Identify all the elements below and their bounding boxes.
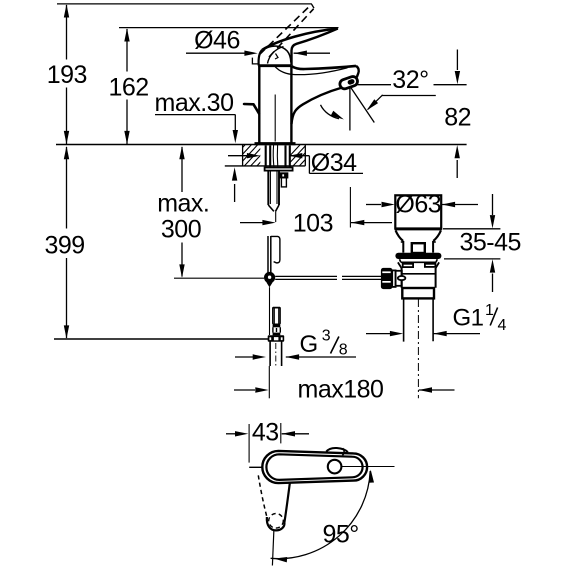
right stud body [281, 178, 286, 187]
Ø34 right leader [289, 156, 363, 174]
counter surface line [56, 144, 467, 146]
32° leader left segment [358, 84, 392, 86]
max.30 lower arrow stem [234, 184, 236, 202]
arrow 399 bottom [64, 325, 69, 338]
outer capsule [262, 451, 367, 483]
body right wall [290, 66, 292, 143]
flange under collar [400, 259, 438, 262]
drain taper left [396, 231, 404, 242]
spout underside [292, 88, 342, 124]
lever underside + dome right edge [292, 29, 338, 66]
dashed lever tip link [312, 4, 314, 8]
dimension max300 line [181, 147, 183, 277]
drain body sides [402, 268, 436, 288]
svg-text:162: 162 [108, 74, 148, 102]
arrow max.30 up to slab bottom [232, 167, 237, 180]
tailpipe centerline [417, 299, 419, 398]
95° arc [271, 471, 371, 559]
82 upper arrow stem [456, 50, 458, 71]
arrow max180 left [255, 387, 268, 392]
centerline to 103 arrow [275, 211, 277, 222]
datum line [342, 466, 395, 468]
dimension 399 line [66, 147, 68, 338]
Ø63 left dim line [366, 204, 381, 206]
arrow G1 1/4 left [390, 331, 403, 336]
svg-text:4: 4 [498, 317, 507, 334]
svg-text:max.: max. [157, 190, 209, 218]
spout top edge [292, 66, 356, 69]
43 extension lines [248, 424, 250, 463]
drain taper right [433, 231, 441, 242]
max180 reference line [54, 338, 268, 340]
arrow Ø46 right [294, 51, 307, 56]
stud tube [273, 307, 280, 324]
counter slab bottom line [225, 165, 305, 167]
103 left dim line [240, 222, 263, 224]
dimension texts [44, 61, 209, 260]
supply pipe below nut [270, 341, 282, 366]
top reference line [57, 3, 312, 5]
knurled knob [381, 268, 393, 289]
svg-text:8: 8 [339, 342, 348, 359]
35-45 bottom reference line [444, 258, 500, 260]
max.30 underline + drop line [155, 114, 235, 116]
arrow 43 left [235, 431, 248, 436]
95° leg line [272, 530, 274, 566]
arrow 103 right [351, 220, 364, 225]
hose bundle below washer [268, 171, 279, 205]
arrow max300 bottom [179, 264, 184, 277]
pull rod hook [271, 236, 280, 262]
43 left dim line [226, 433, 236, 435]
svg-text:193: 193 [47, 61, 87, 89]
tab at dome base left [252, 58, 258, 64]
swung arm bottom cap [267, 517, 285, 530]
mounting washer [265, 168, 293, 171]
svg-text:Ø63: Ø63 [395, 190, 441, 218]
35-45 top reference line [443, 228, 500, 230]
svg-text:G: G [300, 331, 319, 358]
arrow 82 down [455, 71, 460, 84]
faucet base foot [255, 142, 296, 145]
dashed lever raised A [260, 4, 312, 54]
32° lower leader [382, 95, 436, 97]
103 right dim line [351, 222, 392, 224]
overflow slot left [403, 264, 413, 267]
Ø34 left dim line [228, 155, 247, 157]
svg-text:Ø34: Ø34 [311, 149, 357, 177]
arrowheads group [64, 4, 185, 339]
drain body mid line [402, 273, 436, 275]
svg-text:32°: 32° [392, 66, 428, 94]
svg-text:3: 3 [322, 328, 331, 345]
aerator [339, 75, 359, 90]
arrow Ø63 left [382, 202, 395, 207]
swung arm right edge [284, 483, 289, 522]
arrow 162 top [124, 28, 129, 41]
arrow G1 1/4 right [433, 331, 446, 336]
43 right dim line [282, 433, 309, 435]
32° leader right segment [434, 84, 467, 86]
svg-text:300: 300 [161, 216, 201, 244]
dimension 193 line [66, 5, 68, 144]
max180 left extension line [268, 366, 270, 398]
G 3/8 right dim line [286, 356, 356, 358]
dashed circle at arm tip [269, 514, 284, 529]
drain neck [403, 241, 433, 253]
162 reference line [119, 27, 339, 29]
horizontal pop-up rod [275, 276, 381, 279]
arrow 35-45 down [490, 215, 495, 228]
arrow G 3/8 left [253, 354, 266, 359]
svg-text:max180: max180 [298, 376, 384, 404]
arrow 35-45 up [490, 259, 495, 272]
G 3/8 left dim line [235, 356, 254, 358]
svg-text:G1: G1 [453, 305, 484, 332]
cartridge ball arc [268, 47, 284, 64]
max180 left dim line [234, 389, 255, 391]
arrow 95° top [369, 470, 374, 483]
svg-text:399: 399 [44, 232, 84, 260]
step ring [402, 288, 434, 298]
max300 bottom datum [174, 277, 264, 279]
body left wall [258, 66, 260, 143]
counter slab edges [243, 145, 306, 166]
pull rod [268, 236, 271, 274]
spout chamfer line [275, 66, 348, 74]
35-45 lower arrow stem [492, 274, 494, 293]
svg-text:103: 103 [293, 210, 333, 238]
shank outer walls through slab [266, 146, 290, 168]
hose taper [268, 205, 279, 211]
svg-text:82: 82 [444, 104, 471, 132]
inner capsule (lever) [266, 454, 362, 480]
arrow 193 top [64, 4, 69, 17]
drain head bottom thick edge [395, 227, 442, 230]
tailpipe walls [404, 299, 434, 342]
arrow max300 top [179, 146, 184, 159]
aerator circle [328, 460, 342, 474]
spout bump curl [342, 448, 344, 455]
arrow Ø63 right [442, 202, 455, 207]
pop-up rod knob on body left [244, 104, 259, 114]
spout bump on top [326, 448, 348, 452]
square lift knob [412, 243, 425, 253]
interior squiggle [275, 54, 278, 60]
supply stud above G3/8 [273, 307, 280, 324]
ball joint [264, 272, 275, 283]
ball joint tail [266, 282, 272, 287]
drain head Ø63 [395, 195, 441, 228]
arrow Ø46 left [244, 51, 257, 56]
swung arm left edge (dashed) [258, 475, 267, 517]
dome inner arc [264, 46, 291, 62]
arrow 399 top [64, 146, 69, 159]
svg-text:1: 1 [485, 302, 494, 319]
arrow 95° bottom [274, 557, 287, 562]
82 lower arrow stem [456, 160, 458, 178]
stud valve dark bands [273, 324, 281, 328]
swivel arc arrow [321, 105, 340, 119]
spout tip face [356, 66, 359, 77]
svg-text:35-45: 35-45 [459, 229, 520, 257]
hatching left of hole [222, 143, 279, 170]
G1 1/4 left dim line [366, 333, 390, 335]
arrow 103 left [262, 220, 275, 225]
arrow 32° slanted (points down-left at stream line) [367, 99, 379, 110]
pivot pin [398, 276, 406, 280]
black seal collar [395, 253, 441, 259]
arrow 82 up [455, 145, 460, 158]
port collar [392, 270, 395, 287]
swivel arc arrowhead [331, 111, 344, 120]
dashed lever raised B [269, 9, 314, 57]
port body [396, 271, 402, 286]
arrow Ø34 left [247, 153, 260, 158]
Ø46 right dim line [294, 52, 330, 54]
arrow max180 right [419, 387, 432, 392]
svg-text:95°: 95° [323, 521, 359, 549]
arrow G 3/8 right [286, 354, 299, 359]
overflow slot right [425, 264, 436, 267]
right stud cap [280, 173, 287, 177]
arrow 193 bottom [64, 131, 69, 144]
stream 32° slant line [350, 87, 374, 123]
35-45 upper arrow stem [492, 194, 494, 215]
rod stub left [249, 466, 263, 468]
hatching right of hole [277, 143, 327, 170]
Ø63 right dim line [442, 204, 478, 206]
lever top edge [262, 29, 338, 50]
G1 1/4 right dim line [433, 333, 480, 335]
body reflection line [274, 95, 276, 142]
svg-text:max.30: max.30 [155, 89, 234, 117]
drain neck ledges [401, 241, 436, 243]
arrow 162 bottom [124, 131, 129, 144]
svg-text:Ø46: Ø46 [194, 27, 240, 55]
Ø46 left dim line [186, 52, 246, 54]
arrow Ø34 right [289, 153, 302, 158]
103 extension line (spout outlet) [349, 187, 351, 228]
max180 right dim line [419, 389, 455, 391]
dimension 162 line [126, 29, 128, 144]
supply pipe centerline [275, 343, 277, 366]
dome left edge [259, 50, 263, 66]
svg-text:43: 43 [252, 419, 279, 447]
dome base line [258, 64, 291, 67]
arrow max.30 down to counter [233, 130, 238, 143]
hoses inside shank [273, 145, 278, 167]
stream vertical line [349, 88, 351, 131]
arrow 43 right [282, 431, 295, 436]
stud nut [268, 335, 285, 341]
